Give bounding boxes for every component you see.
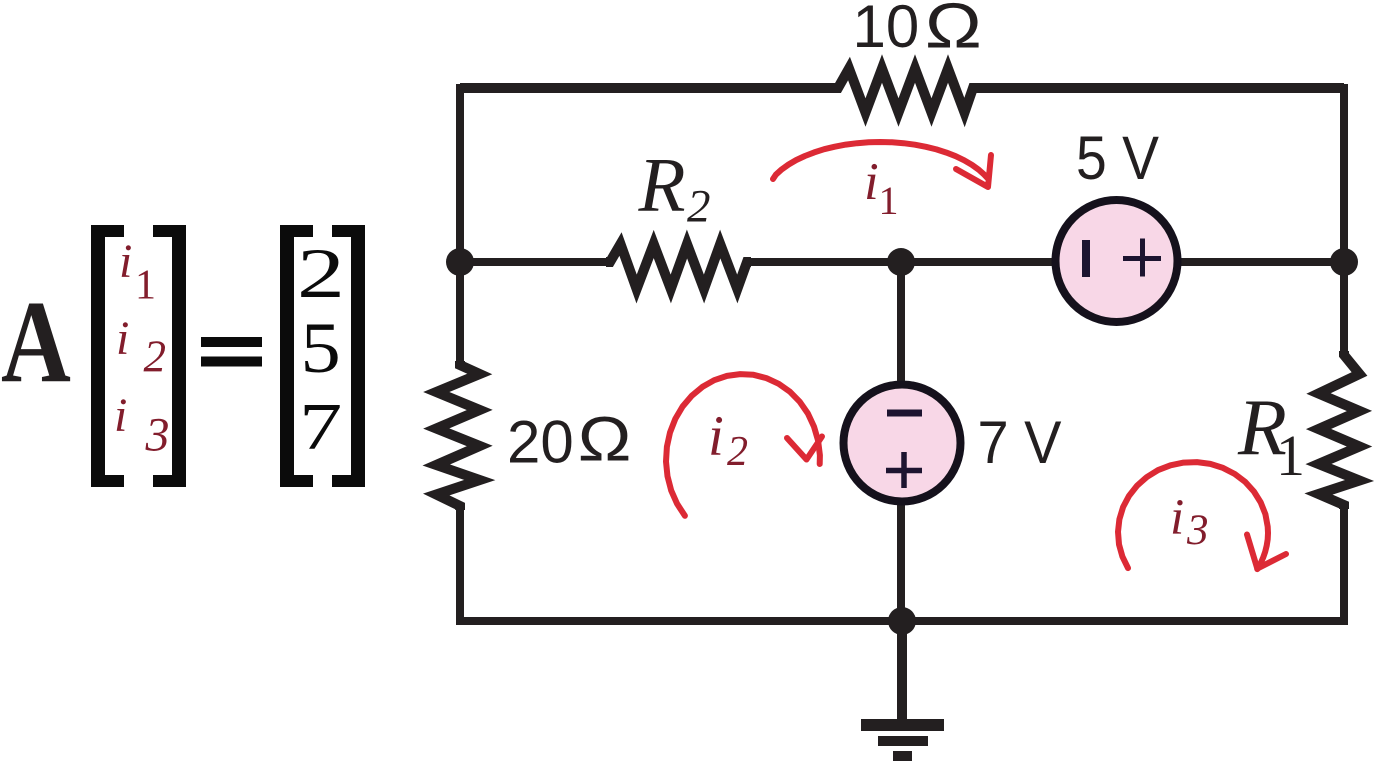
svg-text:5 V: 5 V — [1076, 124, 1159, 192]
svg-text:7 V: 7 V — [978, 409, 1062, 476]
svg-text:20: 20 — [507, 409, 574, 476]
svg-text:1: 1 — [1276, 423, 1305, 488]
svg-text:A: A — [1, 277, 71, 407]
svg-text:R: R — [638, 142, 686, 228]
svg-text:i: i — [119, 235, 132, 288]
svg-text:2: 2 — [297, 235, 345, 313]
svg-text:7: 7 — [299, 389, 342, 464]
svg-text:1: 1 — [135, 263, 156, 309]
svg-text:Ω: Ω — [577, 405, 632, 475]
svg-text:i: i — [708, 405, 724, 468]
svg-text:i: i — [116, 312, 129, 365]
svg-text:i: i — [114, 389, 127, 442]
svg-text:i: i — [864, 153, 879, 211]
svg-text:3: 3 — [145, 409, 170, 462]
svg-text:10: 10 — [853, 0, 920, 60]
svg-text:5: 5 — [301, 308, 341, 388]
svg-text:3: 3 — [1186, 507, 1209, 554]
svg-text:2: 2 — [687, 181, 711, 233]
svg-text:Ω: Ω — [924, 0, 982, 61]
svg-text:2: 2 — [144, 332, 167, 382]
svg-text:i: i — [1170, 490, 1184, 546]
svg-text:2: 2 — [727, 429, 748, 475]
svg-text:1: 1 — [879, 178, 899, 223]
